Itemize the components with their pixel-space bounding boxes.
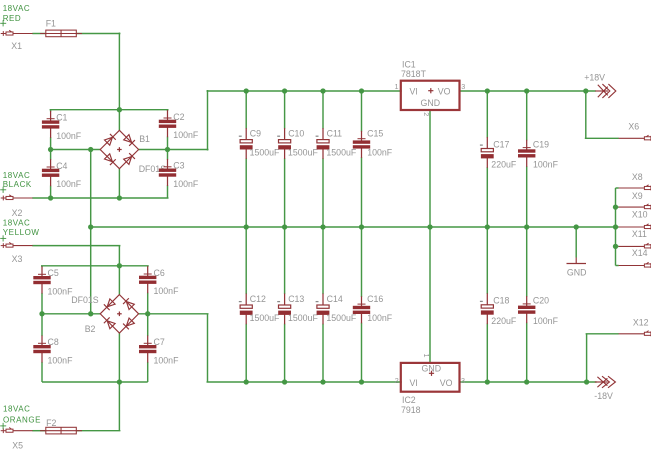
wire B2 right row <box>138 313 209 315</box>
label X1 <box>11 41 22 51</box>
IC1 plus mark <box>428 88 433 93</box>
ground symbol <box>567 258 587 264</box>
capacitor C11 <box>316 91 330 227</box>
svg-text:220uF: 220uF <box>491 316 517 326</box>
IC2 pin 3 number <box>461 376 465 385</box>
wire X8 stub <box>616 187 619 189</box>
svg-text:X10: X10 <box>632 210 648 220</box>
wire rail C5-C6 top <box>41 265 149 267</box>
label X11 <box>632 229 647 239</box>
fuse F1 <box>40 30 82 37</box>
svg-text:C18: C18 <box>493 296 509 306</box>
svg-text:7818T: 7818T <box>401 69 427 79</box>
svg-text:C1: C1 <box>56 113 67 123</box>
label B1 value DF01S <box>139 164 167 174</box>
label C10 <box>288 129 318 158</box>
IC2 plus mark <box>429 371 434 376</box>
bridge rectifier B2 <box>100 295 138 333</box>
svg-text:-18V: -18V <box>594 391 613 401</box>
wire X5 riser <box>118 382 120 431</box>
svg-text:C4: C4 <box>56 161 67 171</box>
wire B2 AC2 down <box>118 332 120 382</box>
label C11 <box>326 129 356 158</box>
svg-text:X14: X14 <box>632 248 648 258</box>
net label 18VAC BLACK <box>0 171 32 193</box>
svg-text:VI: VI <box>410 378 418 388</box>
svg-text:2: 2 <box>422 112 431 116</box>
svg-text:C19: C19 <box>533 139 549 149</box>
connector X6 <box>619 135 651 141</box>
label X12 <box>633 317 649 327</box>
label IC2 <box>401 395 421 415</box>
capacitor C13 <box>277 227 291 382</box>
svg-text:100nF: 100nF <box>533 316 559 326</box>
capacitor C8 <box>33 314 50 382</box>
wire X11 stub <box>616 245 619 247</box>
svg-text:100nF: 100nF <box>56 131 82 141</box>
label X2 <box>12 208 23 218</box>
svg-text:2: 2 <box>395 376 399 385</box>
label C1 <box>56 113 82 141</box>
svg-text:C15: C15 <box>367 129 383 139</box>
IC1 pin texts <box>410 86 451 108</box>
wire B1 plus row <box>138 149 209 151</box>
capacitor C7 <box>139 314 156 382</box>
wire +18V down to X6 <box>585 91 587 138</box>
svg-text:C9: C9 <box>250 129 261 139</box>
svg-text:F1: F1 <box>46 19 56 29</box>
wire -raw rail to IC2 <box>207 381 402 383</box>
capacitor C4 <box>42 150 59 199</box>
label F1 <box>46 19 56 29</box>
capacitor C15 <box>353 91 370 227</box>
svg-text:C8: C8 <box>48 337 59 347</box>
IC2 pin 2 number <box>395 376 399 385</box>
svg-text:X8: X8 <box>632 172 643 182</box>
wire down to bridge B2 AC1 <box>118 266 120 295</box>
bridge rectifier B1 <box>100 130 138 168</box>
svg-text:100nF: 100nF <box>367 313 393 323</box>
wire down to bridge B1 AC1 <box>118 33 120 131</box>
svg-text:C11: C11 <box>327 129 343 139</box>
label C20 <box>533 296 559 326</box>
IC1 pin 1 number <box>395 82 399 91</box>
connector X3 <box>1 242 33 248</box>
fuse F2 <box>40 427 82 434</box>
svg-text:1: 1 <box>395 82 399 91</box>
wire IC2 output rail <box>459 381 597 383</box>
svg-text:18VAC: 18VAC <box>3 171 31 180</box>
svg-text:F2: F2 <box>46 418 56 428</box>
label F2 <box>46 418 56 428</box>
svg-text:1500uF: 1500uF <box>326 147 356 157</box>
svg-text:VO: VO <box>438 86 451 96</box>
capacitor C19 <box>518 91 535 227</box>
svg-text:X2: X2 <box>12 208 23 218</box>
svg-text:X9: X9 <box>632 191 643 201</box>
wire X12 riser <box>586 334 588 382</box>
svg-text:18VAC: 18VAC <box>3 4 31 13</box>
capacitor C17 <box>480 91 494 227</box>
net label 18VAC RED <box>0 4 30 26</box>
svg-text:C20: C20 <box>533 296 549 306</box>
net label 18VAC ORANGE <box>0 405 41 429</box>
supply symbol +18V <box>595 84 616 98</box>
wire rail C1-C2 top <box>50 109 169 111</box>
label X8 <box>632 172 643 182</box>
label C3 <box>173 161 199 189</box>
svg-text:3: 3 <box>461 376 465 385</box>
wire B1 AC2 down <box>118 168 120 198</box>
svg-text:C10: C10 <box>288 129 304 139</box>
svg-text:DF01S: DF01S <box>71 295 99 305</box>
capacitor C16 <box>353 227 370 382</box>
wire X14 stub <box>616 265 619 267</box>
wire connector bus vertical <box>615 188 617 266</box>
wire fuse F2 to riser <box>77 430 121 432</box>
wire IC1 output rail <box>459 90 596 92</box>
svg-text:IC2: IC2 <box>402 395 416 405</box>
IC1 pin 2 number <box>422 112 431 116</box>
label C2 <box>173 112 199 140</box>
capacitor C1 <box>42 110 59 150</box>
svg-text:C6: C6 <box>154 268 165 278</box>
svg-text:100nF: 100nF <box>154 286 180 296</box>
capacitor C5 <box>33 266 50 314</box>
wire B1 minus row <box>50 149 101 151</box>
connector X8 <box>619 185 651 191</box>
wire X5 to fuse F2 <box>32 430 45 432</box>
wire corner down to -raw rail <box>207 314 209 382</box>
connector X1 <box>1 30 33 36</box>
wire IC GND vertical <box>429 110 431 363</box>
label C13 <box>288 294 318 323</box>
connector X12 <box>619 331 651 337</box>
label X14 <box>632 248 648 258</box>
svg-text:VI: VI <box>410 86 418 96</box>
svg-text:X11: X11 <box>632 229 647 239</box>
svg-text:100nF: 100nF <box>367 147 393 157</box>
capacitor C12 <box>239 227 253 382</box>
svg-text:100nF: 100nF <box>173 130 199 140</box>
svg-text:BLACK: BLACK <box>3 180 32 189</box>
svg-text:X12: X12 <box>633 317 649 327</box>
svg-text:18VAC: 18VAC <box>3 218 31 227</box>
svg-text:C7: C7 <box>154 337 165 347</box>
svg-text:X1: X1 <box>11 41 22 51</box>
net label 18VAC YELLOW <box>0 218 39 241</box>
svg-text:C13: C13 <box>288 294 304 304</box>
capacitor C6 <box>139 266 156 314</box>
wire fuse F1 to corner <box>77 33 121 35</box>
svg-text:X6: X6 <box>628 121 639 131</box>
connector X5 <box>1 428 33 434</box>
op-amp U1 body (IC1 7818T box) <box>401 81 460 110</box>
label C18 <box>491 296 517 326</box>
svg-text:18VAC: 18VAC <box>3 405 31 414</box>
svg-text:C17: C17 <box>493 139 509 149</box>
label C17 <box>491 139 517 169</box>
svg-text:C16: C16 <box>367 294 383 304</box>
svg-text:1500uF: 1500uF <box>250 313 280 323</box>
wire X9 stub <box>616 206 619 208</box>
label C9 <box>250 129 280 158</box>
connector X9 <box>619 204 651 210</box>
svg-text:100nF: 100nF <box>173 179 199 189</box>
svg-text:GND: GND <box>567 268 587 278</box>
svg-text:YELLOW: YELLOW <box>3 228 40 237</box>
label X5 <box>12 441 23 451</box>
wire X1 to fuse F1 <box>32 33 45 35</box>
IC2 pin texts <box>410 363 453 388</box>
wire bottom-left rail C8-C7 <box>42 381 148 383</box>
svg-text:C2: C2 <box>173 112 184 122</box>
svg-text:C5: C5 <box>48 268 59 278</box>
wire X10 stub <box>616 226 619 228</box>
capacitor C14 <box>316 227 330 382</box>
label IC1 <box>401 59 427 79</box>
svg-text:1500uF: 1500uF <box>250 147 280 157</box>
label B2 <box>85 324 96 334</box>
IC1 pin 3 number <box>461 82 465 91</box>
wire X3 horizontal <box>32 245 120 247</box>
label B2 value DF01S <box>71 295 99 305</box>
wire GND symbol drop <box>575 227 577 258</box>
capacitor C2 <box>159 110 176 150</box>
label C8 <box>48 337 74 365</box>
svg-text:B2: B2 <box>85 324 96 334</box>
label C12 <box>250 294 280 323</box>
svg-text:RED: RED <box>3 14 22 23</box>
svg-text:1500uF: 1500uF <box>326 313 356 323</box>
svg-text:C12: C12 <box>250 294 266 304</box>
svg-text:GND: GND <box>421 98 441 108</box>
svg-text:100nF: 100nF <box>48 355 74 365</box>
supply symbol -18V <box>595 376 616 388</box>
svg-text:100nF: 100nF <box>154 355 180 365</box>
label C7 <box>154 337 180 365</box>
IC2 pin 1 number <box>422 354 431 358</box>
label C4 <box>56 161 82 189</box>
label C19 <box>533 139 559 169</box>
wire B2 left row <box>41 313 101 315</box>
wire GND rail (yellow net) <box>91 226 617 228</box>
connector X11 <box>619 243 651 249</box>
label C6 <box>154 268 180 296</box>
wire X6 stub <box>585 137 619 139</box>
label C14 <box>326 294 356 323</box>
op-amp U2 body (IC2 7918 box) <box>401 363 460 392</box>
wire corner up to +raw rail <box>207 90 209 151</box>
label +18V <box>584 72 605 82</box>
svg-text:X5: X5 <box>12 441 23 451</box>
svg-text:C3: C3 <box>173 161 184 171</box>
svg-text:3: 3 <box>461 82 465 91</box>
wire X2 rail <box>32 197 168 199</box>
svg-text:C14: C14 <box>327 294 343 304</box>
label X6 <box>628 121 639 131</box>
svg-text:ORANGE: ORANGE <box>3 416 41 425</box>
wire X12 stub <box>586 333 619 335</box>
label -18V <box>594 391 613 401</box>
label GND <box>567 268 587 278</box>
svg-text:IC1: IC1 <box>402 59 416 69</box>
wire X3 drop to rail C <box>118 246 120 266</box>
capacitor C3 <box>159 150 176 199</box>
label B1 <box>139 134 150 144</box>
label C5 <box>48 268 74 296</box>
svg-text:1: 1 <box>422 354 431 358</box>
connector X10 <box>619 224 651 230</box>
svg-text:220uF: 220uF <box>491 160 517 170</box>
wire center vertical x=90.7 <box>90 150 92 314</box>
svg-text:1500uF: 1500uF <box>288 313 318 323</box>
label X3 <box>12 254 23 264</box>
label C16 <box>367 294 393 323</box>
svg-text:B1: B1 <box>139 134 150 144</box>
wire +raw rail to IC1 <box>207 90 402 92</box>
label X10 <box>632 210 648 220</box>
capacitor C10 <box>277 91 291 227</box>
svg-text:VO: VO <box>440 378 453 388</box>
capacitor C18 <box>480 227 494 382</box>
svg-text:100nF: 100nF <box>533 160 559 170</box>
svg-text:7918: 7918 <box>401 405 421 415</box>
connector X2 <box>1 195 33 201</box>
connector X14 <box>619 262 651 268</box>
label X9 <box>632 191 643 201</box>
svg-text:100nF: 100nF <box>56 179 82 189</box>
svg-text:+18V: +18V <box>584 72 605 82</box>
svg-text:1500uF: 1500uF <box>288 147 318 157</box>
label C15 <box>367 129 393 158</box>
svg-text:100nF: 100nF <box>48 286 74 296</box>
svg-text:X3: X3 <box>12 254 23 264</box>
capacitor C9 <box>239 91 253 227</box>
capacitor C20 <box>518 227 535 382</box>
